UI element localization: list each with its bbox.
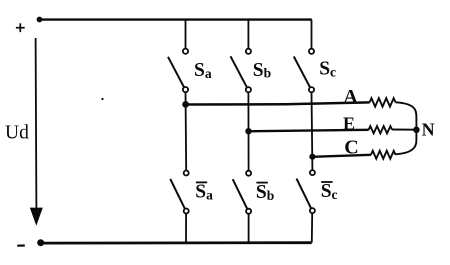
wire: leg b upper-to-lower — [247, 92, 249, 170]
svg-text:A: A — [343, 86, 358, 108]
resistor phase A — [370, 98, 396, 107]
wire: resistor E to node N — [392, 129, 416, 131]
svg-text:Sb: Sb — [256, 182, 274, 203]
wire: phase E line — [249, 130, 369, 132]
svg-text:Sc: Sc — [319, 59, 336, 80]
node: positive terminal — [37, 17, 43, 23]
svg-text:Sa: Sa — [195, 182, 213, 203]
resistor phase E — [369, 126, 393, 133]
wire: resistor C to node N — [396, 130, 417, 154]
switch Sa — [168, 20, 188, 93]
switch S-bar-c — [297, 170, 315, 243]
resistor phase C — [371, 151, 396, 159]
svg-text:Sb: Sb — [253, 60, 271, 81]
junction node phase A — [182, 101, 189, 108]
svg-text:E: E — [343, 114, 355, 134]
node N — [413, 127, 420, 134]
label S-bar-c — [321, 181, 338, 202]
wire: leg c upper-to-lower — [311, 92, 314, 170]
wire: bottom DC bus — [41, 241, 312, 244]
svg-text:Sa: Sa — [194, 60, 212, 81]
svg-text:Sc: Sc — [321, 181, 338, 202]
wire: phase A line — [186, 102, 370, 104]
svg-text:Ud: Ud — [5, 122, 29, 143]
switch Sc — [294, 20, 314, 93]
svg-text:C: C — [344, 136, 358, 158]
switch Sb — [231, 20, 251, 93]
junction node phase E — [245, 128, 251, 134]
junction node phase C — [309, 154, 315, 160]
switch S-bar-b — [233, 171, 251, 243]
label + — [16, 23, 25, 32]
label S-bar-b — [256, 182, 274, 203]
node: negative terminal — [37, 239, 44, 246]
label S-bar-a — [195, 182, 213, 203]
wire: resistor A to node N — [395, 102, 416, 129]
wire: phase C line — [312, 155, 371, 157]
wire: leg a upper-to-lower — [185, 92, 188, 170]
switch S-bar-a — [170, 171, 188, 243]
svg-text:N: N — [422, 120, 435, 140]
wire: top DC bus — [40, 18, 312, 20]
label - — [17, 244, 25, 246]
voltage arrow Ud — [30, 38, 43, 226]
